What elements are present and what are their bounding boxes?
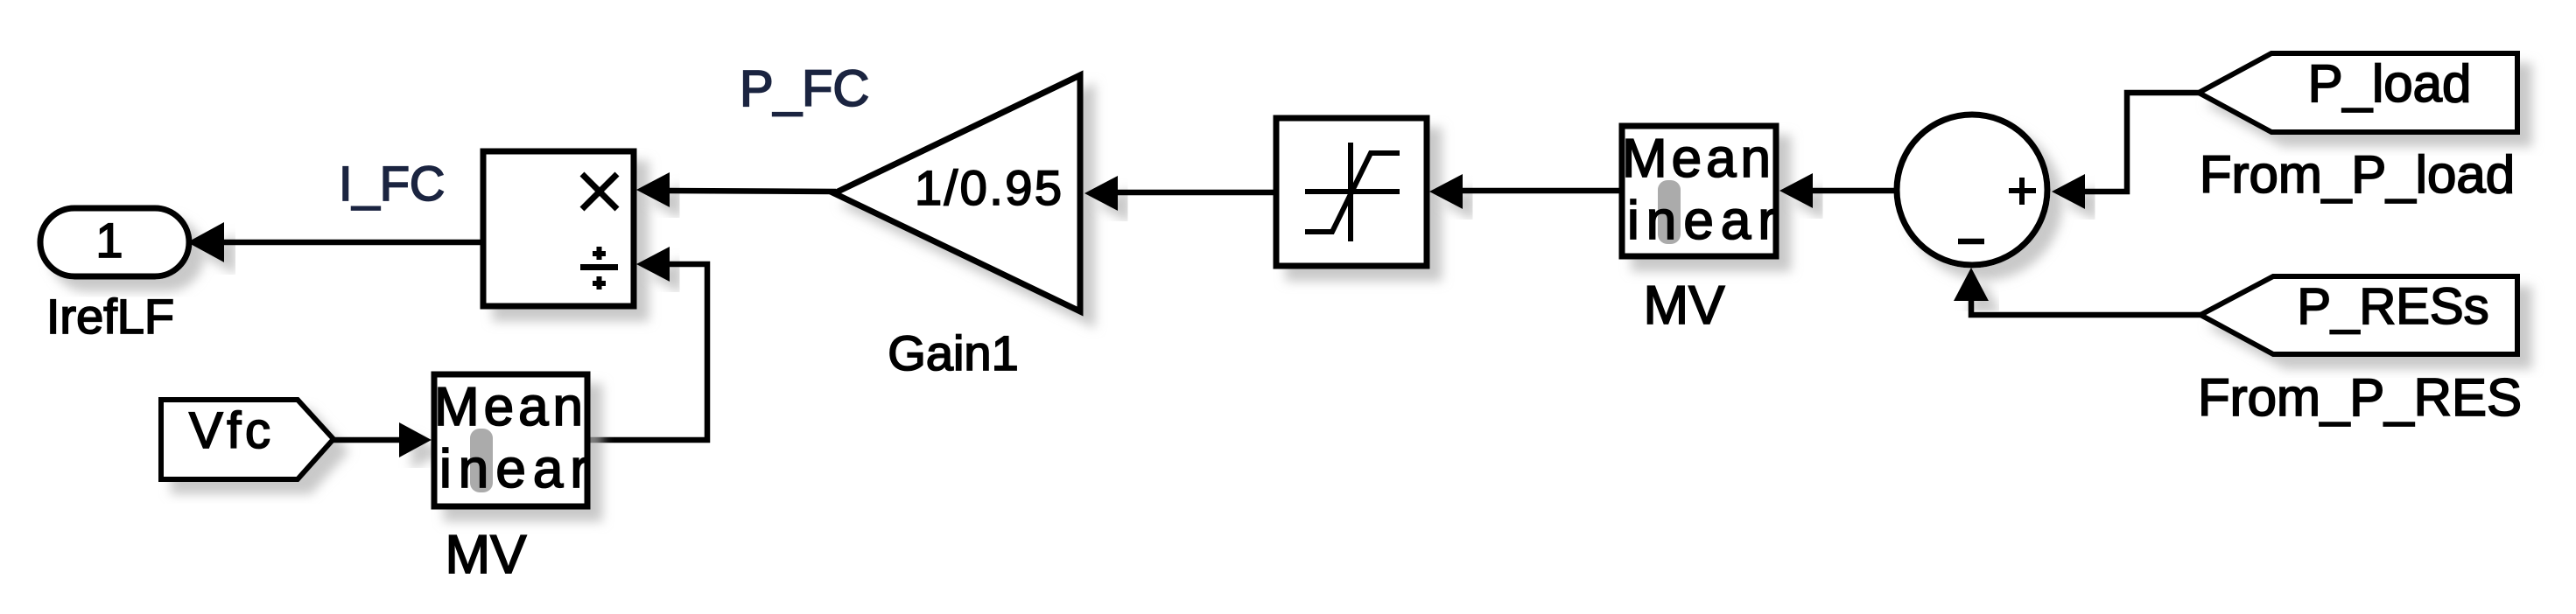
sum junction circle bbox=[1897, 115, 2047, 265]
arrowhead into product divide input bbox=[636, 247, 670, 282]
wire product output to outport bbox=[221, 240, 483, 246]
wire lower mean to divide input (up segment) bbox=[587, 264, 707, 440]
multiply symbol bbox=[582, 174, 617, 209]
svg-text:MV: MV bbox=[446, 525, 528, 585]
wire mean MV output to saturation bbox=[1461, 188, 1622, 194]
svg-text:From_P_RES: From_P_RES bbox=[2198, 368, 2522, 427]
svg-text:P_RESs: P_RESs bbox=[2297, 278, 2488, 335]
From tag P_RESs bbox=[2200, 276, 2517, 354]
arrowhead into saturation input bbox=[1429, 174, 1463, 209]
saturation block bbox=[1276, 118, 1427, 266]
svg-text:Vfc: Vfc bbox=[189, 402, 270, 459]
gain Gain1 triangle bbox=[834, 75, 1080, 311]
arrowhead into mean MV lower bbox=[399, 422, 432, 457]
svg-text:MV: MV bbox=[1644, 276, 1726, 336]
arrowhead into sum plus input bbox=[2052, 174, 2085, 209]
mean block MV (upper) bbox=[1622, 126, 1776, 256]
svg-text:P_FC: P_FC bbox=[740, 60, 869, 117]
mean upper text bbox=[1622, 129, 1776, 251]
svg-text:1: 1 bbox=[95, 213, 123, 268]
svg-text:IrefLF: IrefLF bbox=[46, 289, 174, 344]
arrowhead into product x input bbox=[636, 172, 670, 207]
svg-text:Mean: Mean bbox=[434, 377, 583, 437]
mean lower icon bar bbox=[470, 429, 493, 492]
saturation icon axes bbox=[1305, 143, 1400, 241]
arrowhead into sum minus input bbox=[1954, 268, 1989, 301]
Goto tag Vfc bbox=[161, 400, 333, 479]
From tag P_load bbox=[2199, 53, 2517, 132]
arrowhead into gain input bbox=[1084, 176, 1118, 211]
svg-text:From_P_load: From_P_load bbox=[2200, 145, 2515, 204]
divide symbol bbox=[580, 247, 618, 290]
svg-text:Gain1: Gain1 bbox=[888, 325, 1018, 380]
mean upper icon bar bbox=[1658, 180, 1681, 244]
svg-text:P_load: P_load bbox=[2308, 54, 2472, 113]
wire gain output to product x input bbox=[668, 191, 836, 192]
wire saturation output to gain bbox=[1116, 190, 1277, 196]
svg-text:Mean: Mean bbox=[1622, 129, 1771, 189]
wire sum output to mean MV upper bbox=[1811, 188, 1897, 194]
wire P_RESs tag to sum bbox=[1971, 299, 2200, 315]
product block U_div bbox=[483, 151, 634, 306]
mean lower text bbox=[434, 377, 588, 499]
arrowhead into outport bbox=[187, 222, 224, 262]
arrowhead into mean MV upper bbox=[1779, 173, 1813, 208]
wire P_load tag to sum bbox=[2083, 93, 2200, 192]
mean block MV (lower) bbox=[434, 374, 587, 506]
outport 1 (IrefLF) oval bbox=[40, 208, 189, 276]
minus sign bbox=[1958, 239, 1984, 245]
svg-text:I_FC: I_FC bbox=[339, 156, 445, 211]
plus sign bbox=[2009, 178, 2036, 205]
wire Vfc to mean MV lower bbox=[333, 437, 403, 443]
